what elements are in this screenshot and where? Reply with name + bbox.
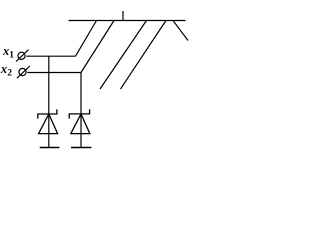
group bus line bbox=[69, 20, 186, 22]
wire x1 horizontal bbox=[26, 55, 75, 57]
bus tick mark bbox=[122, 11, 124, 21]
svg-text:x: x bbox=[0, 62, 7, 76]
wire slant D bbox=[121, 21, 167, 90]
ground VD2 bbox=[71, 147, 91, 149]
wire vertical to VD2 bbox=[80, 73, 82, 148]
svg-text:1: 1 bbox=[9, 51, 14, 61]
zener diode VD2 bbox=[69, 109, 90, 133]
ground VD1 bbox=[40, 147, 60, 149]
label x1 bbox=[2, 44, 14, 60]
wire x2 slant to bus bbox=[81, 21, 114, 73]
terminal x2 bbox=[17, 66, 30, 78]
wire slant E down-right bbox=[173, 21, 188, 41]
wire x1 slant to bus bbox=[76, 21, 97, 57]
wire x2 horizontal bbox=[27, 72, 81, 74]
wire vertical to VD1 bbox=[48, 56, 50, 147]
label x2 bbox=[0, 62, 12, 79]
terminal x1 bbox=[16, 50, 29, 62]
zener diode VD1 bbox=[38, 109, 58, 133]
svg-text:2: 2 bbox=[7, 69, 12, 79]
wire slant C bbox=[100, 21, 147, 90]
svg-text:x: x bbox=[2, 44, 9, 58]
